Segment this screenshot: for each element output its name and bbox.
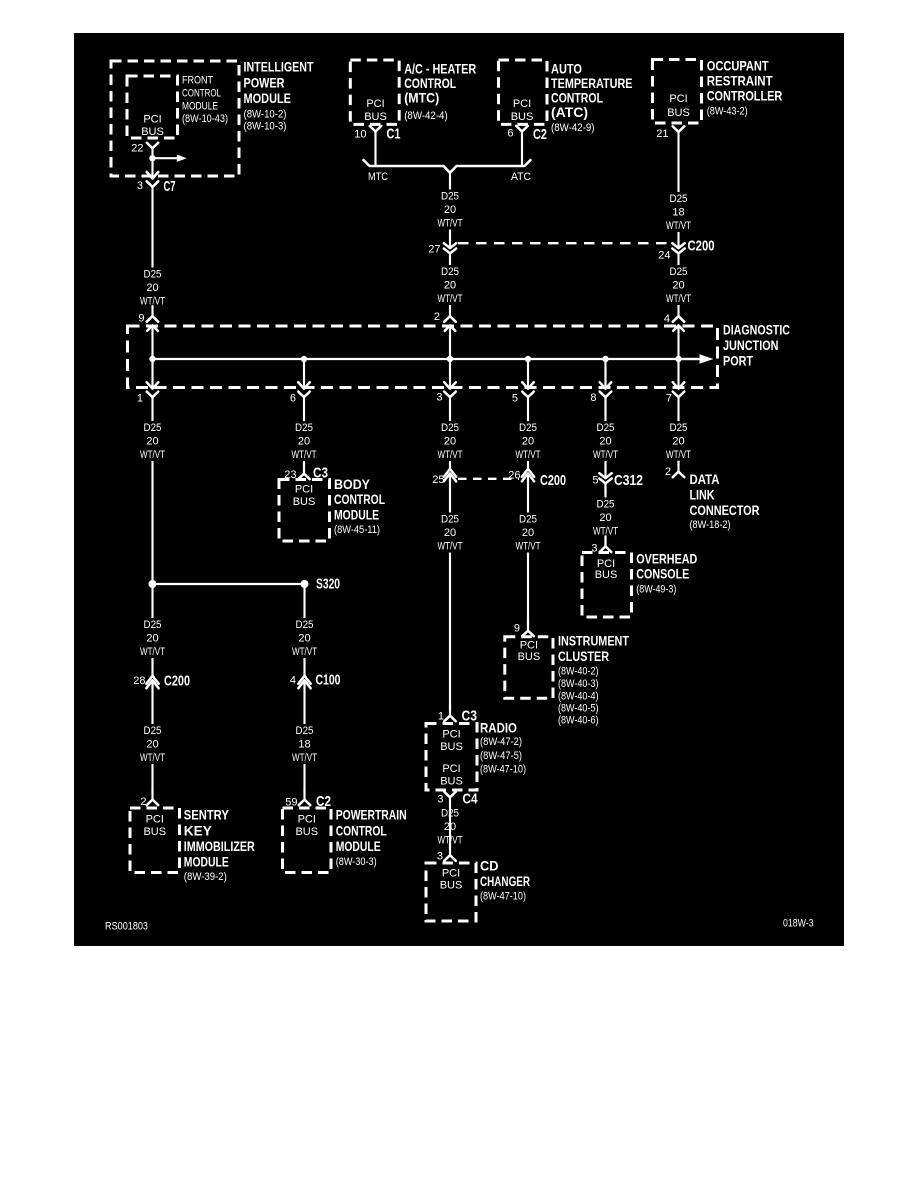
svg-text:PCI: PCI: [669, 93, 687, 105]
svg-text:RS001803: RS001803: [105, 921, 148, 933]
svg-text:C100: C100: [316, 672, 341, 689]
svg-text:LINK: LINK: [690, 487, 715, 503]
svg-text:C3: C3: [313, 465, 328, 482]
svg-text:20: 20: [444, 280, 456, 292]
svg-text:C200: C200: [540, 472, 566, 489]
svg-text:WT/VT: WT/VT: [593, 449, 618, 461]
svg-text:20: 20: [298, 436, 310, 448]
svg-text:WT/VT: WT/VT: [292, 646, 317, 658]
svg-text:10: 10: [354, 129, 366, 141]
svg-text:(8W-40-3): (8W-40-3): [558, 678, 599, 690]
svg-text:59: 59: [285, 797, 297, 809]
svg-text:(8W-47-10): (8W-47-10): [480, 891, 526, 903]
svg-text:BUS: BUS: [364, 111, 387, 123]
svg-text:KEY: KEY: [184, 823, 213, 839]
svg-text:5: 5: [512, 393, 518, 405]
svg-text:D25: D25: [296, 619, 314, 631]
svg-text:2: 2: [665, 466, 671, 478]
svg-text:WT/VT: WT/VT: [438, 835, 463, 847]
svg-text:PCI: PCI: [442, 729, 460, 741]
svg-text:9: 9: [138, 313, 144, 325]
svg-text:D25: D25: [144, 725, 162, 737]
svg-text:CONNECTOR: CONNECTOR: [690, 502, 760, 518]
svg-text:CONTROL: CONTROL: [182, 88, 221, 100]
svg-text:8: 8: [590, 392, 596, 404]
svg-text:(8W-10-43): (8W-10-43): [182, 113, 228, 125]
svg-text:C2: C2: [533, 126, 547, 143]
svg-text:2: 2: [434, 311, 440, 323]
svg-text:FRONT: FRONT: [182, 75, 213, 87]
svg-text:23: 23: [284, 469, 296, 481]
svg-text:D25: D25: [144, 269, 162, 281]
svg-text:WT/VT: WT/VT: [140, 296, 165, 308]
svg-text:WT/VT: WT/VT: [140, 646, 165, 658]
svg-text:OCCUPANT: OCCUPANT: [707, 58, 769, 74]
svg-text:INTELLIGENT: INTELLIGENT: [244, 59, 314, 75]
svg-text:D25: D25: [519, 422, 537, 434]
svg-text:OVERHEAD: OVERHEAD: [636, 551, 697, 567]
svg-text:MODULE: MODULE: [336, 838, 381, 854]
svg-text:PCI: PCI: [442, 763, 460, 775]
svg-text:CHANGER: CHANGER: [480, 873, 530, 889]
svg-text:018W-3: 018W-3: [783, 918, 814, 930]
svg-text:(8W-43-2): (8W-43-2): [707, 106, 748, 118]
svg-text:(8W-30-3): (8W-30-3): [336, 856, 377, 868]
svg-text:MODULE: MODULE: [182, 101, 218, 113]
svg-text:DATA: DATA: [690, 471, 720, 487]
svg-text:D25: D25: [144, 619, 162, 631]
svg-text:WT/VT: WT/VT: [140, 449, 165, 461]
svg-text:BUS: BUS: [667, 107, 690, 119]
svg-text:27: 27: [428, 244, 440, 256]
svg-text:(8W-47-10): (8W-47-10): [480, 764, 526, 776]
svg-text:20: 20: [599, 436, 611, 448]
svg-text:WT/VT: WT/VT: [292, 449, 317, 461]
svg-text:(8W-40-4): (8W-40-4): [558, 691, 599, 703]
svg-text:(8W-18-2): (8W-18-2): [690, 519, 731, 531]
svg-text:3: 3: [137, 180, 143, 192]
svg-text:6: 6: [507, 128, 513, 140]
svg-text:C2: C2: [316, 793, 331, 810]
svg-text:5: 5: [592, 475, 598, 487]
svg-text:20: 20: [146, 436, 158, 448]
svg-text:20: 20: [146, 739, 158, 751]
svg-text:WT/VT: WT/VT: [438, 218, 463, 230]
svg-text:D25: D25: [670, 193, 688, 205]
svg-text:CONTROL: CONTROL: [334, 491, 385, 507]
svg-text:CONSOLE: CONSOLE: [636, 566, 689, 582]
svg-text:JUNCTION: JUNCTION: [723, 337, 779, 353]
svg-text:D25: D25: [441, 808, 459, 820]
svg-text:(8W-39-2): (8W-39-2): [184, 871, 227, 883]
svg-text:WT/VT: WT/VT: [292, 752, 317, 764]
svg-text:D25: D25: [441, 266, 459, 278]
svg-text:PCI: PCI: [520, 640, 538, 652]
svg-text:C200: C200: [688, 238, 715, 255]
svg-text:BUS: BUS: [595, 569, 618, 581]
svg-text:20: 20: [599, 512, 611, 524]
svg-text:20: 20: [444, 821, 456, 833]
svg-text:WT/VT: WT/VT: [593, 526, 618, 538]
svg-text:3: 3: [436, 392, 442, 404]
svg-text:D25: D25: [441, 191, 459, 203]
svg-text:D25: D25: [670, 266, 688, 278]
svg-text:PCI: PCI: [295, 484, 313, 496]
svg-text:MODULE: MODULE: [244, 90, 292, 106]
svg-text:ATC: ATC: [511, 171, 531, 183]
svg-text:BUS: BUS: [293, 496, 316, 508]
svg-text:WT/VT: WT/VT: [438, 293, 463, 305]
svg-text:WT/VT: WT/VT: [666, 220, 691, 232]
svg-text:WT/VT: WT/VT: [516, 449, 541, 461]
svg-text:18: 18: [298, 739, 310, 751]
svg-text:WT/VT: WT/VT: [438, 449, 463, 461]
svg-text:(MTC): (MTC): [404, 90, 439, 106]
svg-text:WT/VT: WT/VT: [438, 541, 463, 553]
svg-text:D25: D25: [144, 422, 162, 434]
svg-text:1: 1: [137, 393, 143, 405]
svg-text:24: 24: [658, 250, 670, 262]
svg-text:C7: C7: [164, 178, 176, 195]
svg-text:18: 18: [672, 207, 684, 219]
svg-text:BUS: BUS: [440, 776, 463, 788]
svg-text:BUS: BUS: [295, 826, 318, 838]
svg-text:MODULE: MODULE: [334, 506, 379, 522]
svg-text:(8W-47-2): (8W-47-2): [480, 736, 522, 748]
svg-text:BUS: BUS: [440, 880, 463, 892]
svg-text:C200: C200: [164, 673, 190, 690]
svg-text:PCI: PCI: [513, 98, 531, 110]
svg-text:D25: D25: [296, 725, 314, 737]
svg-text:20: 20: [522, 436, 534, 448]
svg-text:BODY: BODY: [334, 476, 371, 492]
svg-text:20: 20: [146, 282, 158, 294]
svg-text:SENTRY: SENTRY: [184, 807, 230, 823]
svg-text:MODULE: MODULE: [184, 854, 229, 870]
svg-text:PCI: PCI: [366, 98, 384, 110]
svg-text:(8W-40-6): (8W-40-6): [558, 715, 599, 727]
svg-text:3: 3: [437, 851, 443, 863]
svg-text:20: 20: [444, 527, 456, 539]
svg-text:(8W-45-11): (8W-45-11): [334, 524, 380, 536]
svg-text:WT/VT: WT/VT: [140, 752, 165, 764]
svg-text:PCI: PCI: [298, 814, 316, 826]
svg-text:POWERTRAIN: POWERTRAIN: [336, 807, 407, 823]
svg-text:RESTRAINT: RESTRAINT: [707, 73, 773, 89]
svg-text:D25: D25: [441, 514, 459, 526]
svg-text:20: 20: [522, 527, 534, 539]
svg-text:D25: D25: [441, 422, 459, 434]
svg-text:(8W-40-2): (8W-40-2): [558, 666, 599, 678]
svg-text:MTC: MTC: [368, 171, 388, 183]
svg-text:28: 28: [133, 675, 145, 687]
svg-text:(ATC): (ATC): [551, 104, 588, 120]
svg-text:INSTRUMENT: INSTRUMENT: [558, 633, 629, 649]
svg-text:PCI: PCI: [143, 114, 161, 126]
svg-text:20: 20: [146, 633, 158, 645]
svg-text:20: 20: [444, 436, 456, 448]
svg-text:1: 1: [438, 711, 444, 723]
svg-text:PCI: PCI: [442, 868, 460, 880]
svg-text:D25: D25: [597, 422, 615, 434]
svg-text:20: 20: [672, 436, 684, 448]
svg-text:20: 20: [298, 633, 310, 645]
svg-text:PORT: PORT: [723, 353, 753, 369]
svg-text:C1: C1: [387, 126, 401, 143]
svg-text:BUS: BUS: [440, 741, 463, 753]
svg-text:(8W-47-5): (8W-47-5): [480, 750, 522, 762]
svg-text:POWER: POWER: [244, 75, 285, 91]
svg-text:(8W-42-9): (8W-42-9): [551, 122, 595, 134]
svg-text:20: 20: [672, 280, 684, 292]
svg-text:BUS: BUS: [143, 826, 166, 838]
svg-text:BUS: BUS: [518, 651, 541, 663]
svg-text:WT/VT: WT/VT: [516, 541, 541, 553]
svg-text:D25: D25: [519, 514, 537, 526]
svg-text:4: 4: [664, 313, 670, 325]
svg-text:20: 20: [444, 204, 456, 216]
svg-text:WT/VT: WT/VT: [666, 449, 691, 461]
svg-text:D25: D25: [670, 422, 688, 434]
svg-text:S320: S320: [316, 576, 340, 593]
svg-text:25: 25: [432, 474, 444, 486]
svg-text:22: 22: [131, 143, 143, 155]
svg-text:3: 3: [591, 543, 597, 555]
svg-text:(8W-40-5): (8W-40-5): [558, 703, 599, 715]
svg-text:CONTROLLER: CONTROLLER: [707, 88, 783, 104]
svg-text:PCI: PCI: [146, 814, 164, 826]
svg-text:6: 6: [290, 393, 296, 405]
svg-text:RADIO: RADIO: [480, 720, 517, 736]
svg-text:CLUSTER: CLUSTER: [558, 648, 609, 664]
svg-text:C312: C312: [614, 472, 643, 489]
svg-text:WT/VT: WT/VT: [666, 293, 691, 305]
svg-text:C3: C3: [462, 708, 478, 725]
svg-text:C4: C4: [463, 791, 479, 808]
svg-text:IMMOBILIZER: IMMOBILIZER: [184, 838, 255, 854]
svg-text:BUS: BUS: [511, 111, 534, 123]
svg-text:4: 4: [290, 675, 296, 687]
svg-text:2: 2: [140, 796, 146, 808]
svg-text:(8W-42-4): (8W-42-4): [404, 110, 448, 122]
svg-text:26: 26: [508, 470, 520, 482]
svg-text:CONTROL: CONTROL: [336, 823, 387, 839]
svg-text:BUS: BUS: [141, 126, 164, 138]
svg-text:3: 3: [437, 794, 443, 806]
svg-text:D25: D25: [597, 499, 615, 511]
svg-text:(8W-49-3): (8W-49-3): [636, 584, 676, 596]
svg-text:9: 9: [514, 623, 520, 635]
svg-text:CD: CD: [480, 858, 499, 874]
svg-text:21: 21: [656, 128, 668, 140]
svg-text:(8W-10-3): (8W-10-3): [244, 121, 287, 133]
svg-text:DIAGNOSTIC: DIAGNOSTIC: [723, 322, 790, 338]
svg-text:(8W-10-2): (8W-10-2): [244, 109, 287, 121]
svg-text:D25: D25: [295, 422, 313, 434]
svg-text:7: 7: [666, 393, 672, 405]
